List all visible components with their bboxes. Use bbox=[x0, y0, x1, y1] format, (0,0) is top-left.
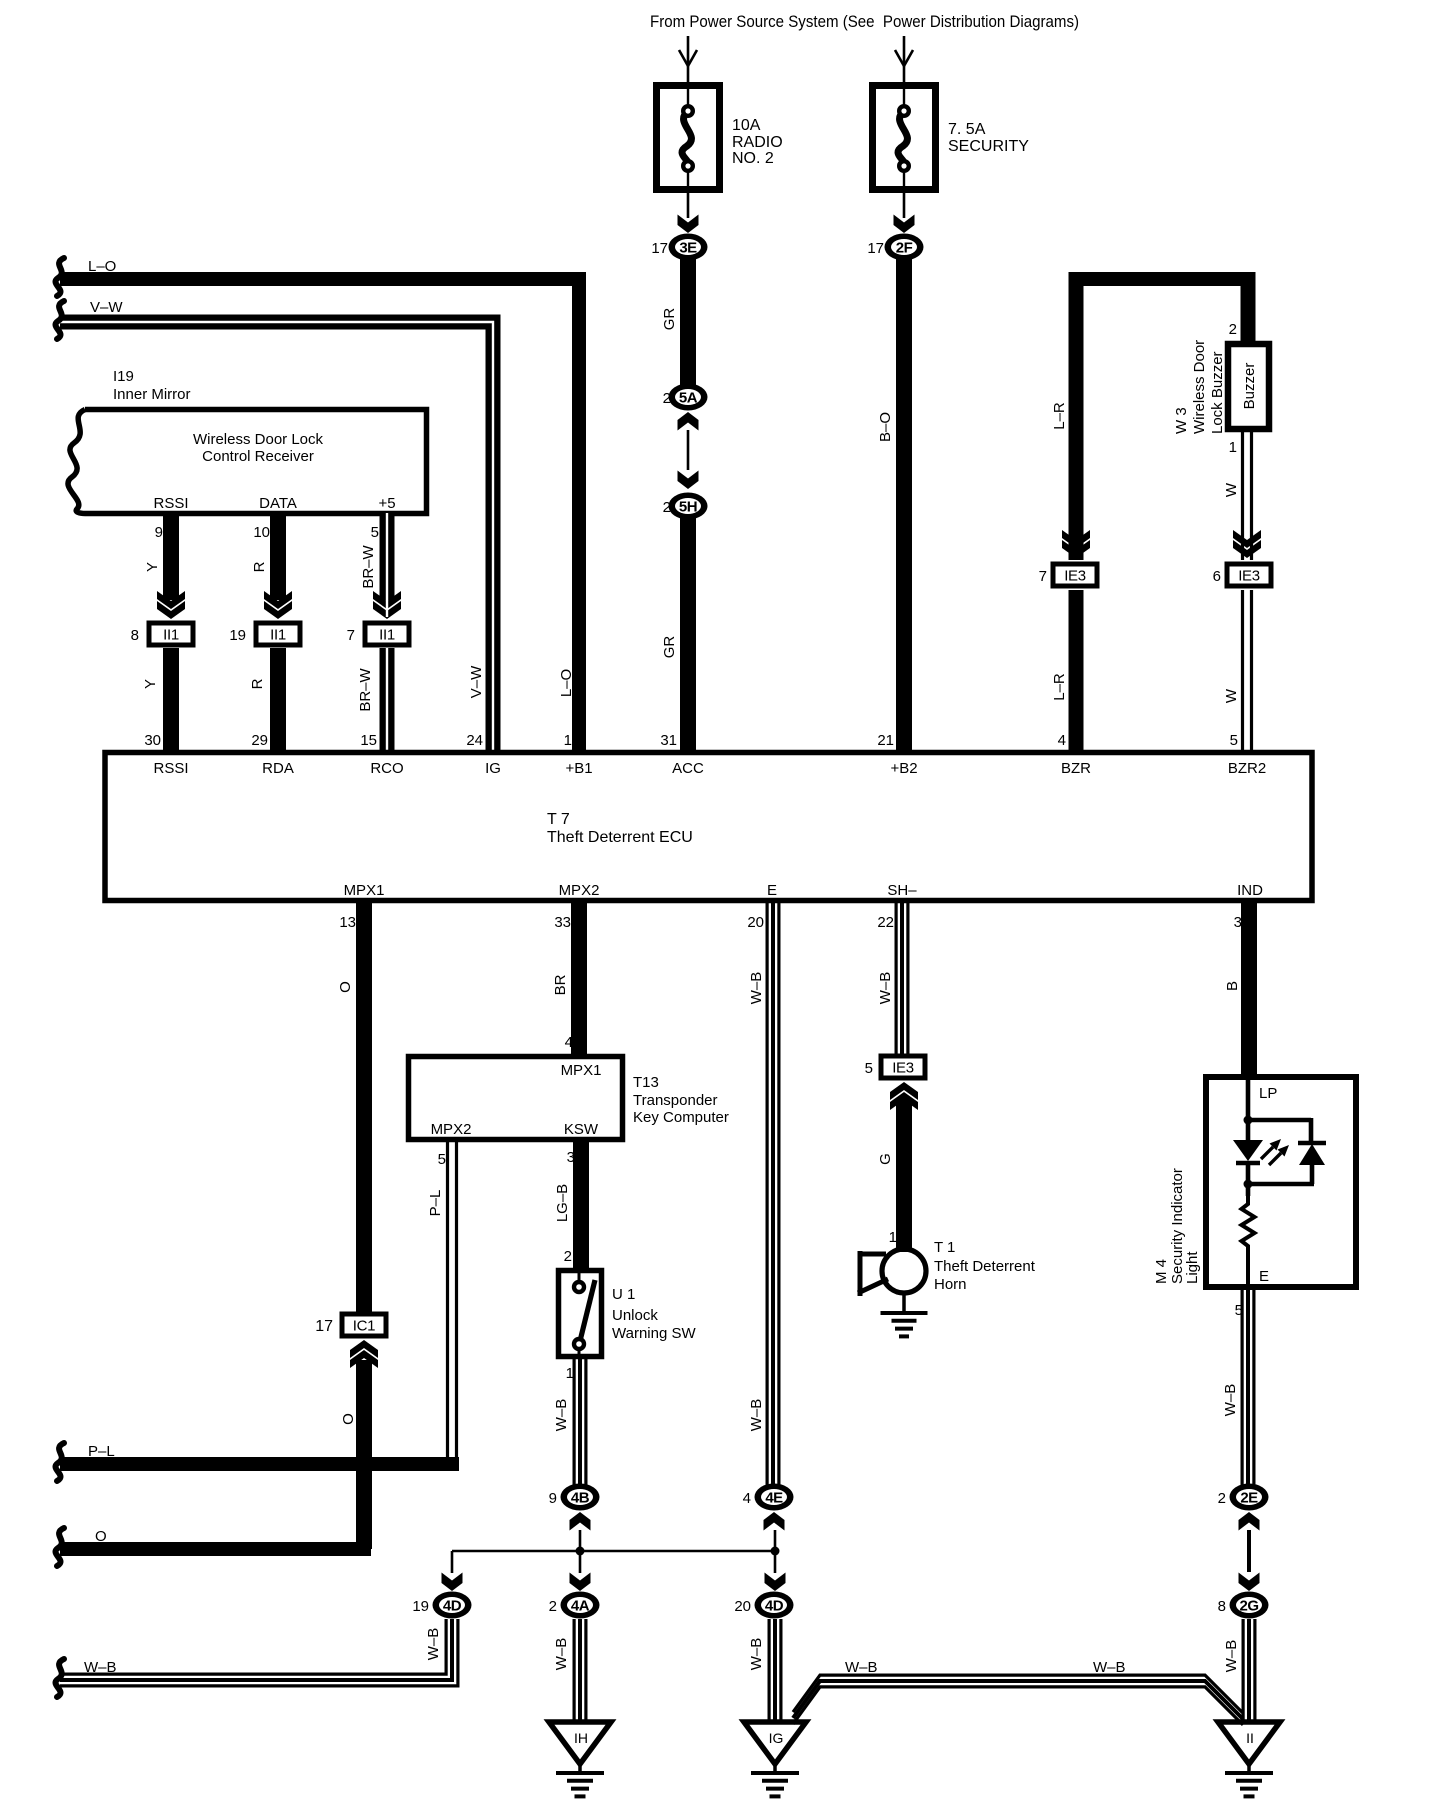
unlock warning switch U1 bbox=[559, 1271, 602, 1357]
connector 4D pin 20 bbox=[734, 1592, 793, 1619]
connector IE3 pin 5 bbox=[865, 1054, 928, 1081]
svg-text:31: 31 bbox=[660, 732, 677, 749]
label P-L left bbox=[88, 1443, 115, 1460]
svg-text:GR: GR bbox=[661, 308, 678, 331]
svg-text:4D: 4D bbox=[443, 1598, 462, 1615]
svg-text:Transponder: Transponder bbox=[633, 1092, 718, 1109]
label pin 29 bbox=[251, 732, 268, 749]
connector 2F pin 17 bbox=[867, 234, 923, 261]
connector 3E pin 17 bbox=[651, 234, 707, 261]
wire O IC1 down to harness bbox=[60, 1360, 371, 1549]
svg-text:E: E bbox=[1259, 1268, 1269, 1285]
wire W IE3 to ECU BZR2 bbox=[1243, 590, 1252, 752]
wire W-B 2G to ground II bbox=[1243, 1619, 1255, 1722]
wire L-R ECU BZR up and over to buzzer bbox=[1069, 272, 1255, 560]
wire W buzzer to IE3 pin 6 bbox=[1243, 429, 1252, 560]
label pin 31 bbox=[660, 732, 677, 749]
connector 4B pin 9 bbox=[549, 1484, 600, 1511]
fuse F1 10A RADIO NO. 2 bbox=[657, 85, 720, 190]
label W lower bbox=[1223, 688, 1240, 703]
connector 2G pin 8 bbox=[1218, 1592, 1269, 1619]
wire feed into fuse F2 bbox=[895, 36, 913, 84]
svg-text:4D: 4D bbox=[765, 1598, 784, 1615]
label fuse F1 value bbox=[732, 117, 783, 167]
label W-B bottom left bbox=[84, 1659, 117, 1676]
svg-text:Wireless Door Lock: Wireless Door Lock bbox=[193, 431, 324, 448]
svg-text:33: 33 bbox=[554, 914, 571, 931]
label pin 1 bbox=[564, 732, 572, 749]
connector 4A pin 2 bbox=[549, 1592, 600, 1619]
svg-text:GR: GR bbox=[661, 636, 678, 659]
label M4 pin 5 bbox=[1235, 1302, 1243, 1319]
svg-text:IG: IG bbox=[485, 760, 501, 777]
svg-text:Control Receiver: Control Receiver bbox=[202, 448, 314, 465]
svg-text:I19: I19 bbox=[113, 368, 134, 385]
wire L-R IE3 to ECU BZR bbox=[1069, 590, 1084, 752]
svg-text:19: 19 bbox=[412, 1598, 429, 1615]
label V-W left bbox=[90, 299, 123, 316]
wire W-B 4A to ground IH bbox=[574, 1619, 586, 1722]
svg-text:Warning SW: Warning SW bbox=[612, 1325, 696, 1342]
theft deterrent ECU T7 box bbox=[105, 753, 1312, 901]
svg-text:SH–: SH– bbox=[887, 882, 917, 899]
label P-L vertical bbox=[427, 1190, 444, 1217]
svg-text:Theft Deterrent: Theft Deterrent bbox=[934, 1258, 1036, 1275]
label pin 21 bbox=[877, 732, 894, 749]
label U1 pin 1 bbox=[566, 1365, 574, 1382]
svg-text:B–O: B–O bbox=[877, 412, 894, 442]
label W-B E lower bbox=[748, 1399, 765, 1432]
wire R II1 to ECU RDA bbox=[270, 648, 286, 752]
svg-text:RSSI: RSSI bbox=[153, 760, 188, 777]
label W-B 4A bbox=[553, 1638, 570, 1671]
arrow up into 4B bbox=[570, 1512, 591, 1531]
svg-text:17: 17 bbox=[315, 1318, 333, 1335]
label GR lower bbox=[661, 636, 678, 659]
junction rail bbox=[452, 1530, 780, 1573]
torn end O bbox=[55, 1528, 64, 1566]
svg-text:ACC: ACC bbox=[672, 760, 704, 777]
svg-text:W–B: W–B bbox=[1093, 1659, 1126, 1676]
svg-text:U 1: U 1 bbox=[612, 1286, 635, 1303]
svg-text:IH: IH bbox=[574, 1730, 588, 1746]
svg-text:W: W bbox=[1223, 482, 1240, 497]
wire P-L harness to T13 MPX2 bbox=[60, 1142, 459, 1464]
receiver pin labels bbox=[153, 495, 395, 512]
svg-text:4: 4 bbox=[565, 1034, 573, 1051]
label W-B mid bbox=[845, 1659, 878, 1676]
wire GR connector 3E to 5A bbox=[680, 259, 696, 385]
wire L-O from harness to ECU +B1 bbox=[60, 279, 586, 752]
svg-text:4B: 4B bbox=[571, 1490, 590, 1507]
svg-text:1: 1 bbox=[889, 1229, 897, 1246]
label T13 pin 5 bbox=[438, 1151, 446, 1168]
connector II1 pin 19 bbox=[229, 621, 302, 648]
label O left bbox=[95, 1528, 107, 1545]
svg-text:2: 2 bbox=[1229, 321, 1237, 338]
svg-text:Lock Buzzer: Lock Buzzer bbox=[1209, 351, 1226, 434]
label U1 pin 2 bbox=[564, 1248, 572, 1265]
wire fuse F1 to connector 3E bbox=[678, 189, 699, 233]
connector 4D pin 19 bbox=[412, 1592, 471, 1619]
label V-W vertical bbox=[468, 665, 485, 698]
svg-text:9: 9 bbox=[549, 1490, 557, 1507]
svg-text:10: 10 bbox=[253, 524, 270, 541]
svg-text:MPX2: MPX2 bbox=[559, 882, 600, 899]
svg-text:RCO: RCO bbox=[370, 760, 403, 777]
svg-text:2E: 2E bbox=[1240, 1490, 1258, 1507]
ground IG bbox=[744, 1722, 806, 1796]
svg-text:W–B: W–B bbox=[553, 1638, 570, 1671]
svg-text:O: O bbox=[95, 1528, 107, 1545]
svg-text:2: 2 bbox=[549, 1598, 557, 1615]
svg-text:L–R: L–R bbox=[1051, 402, 1068, 430]
wire feed into fuse F1 bbox=[679, 36, 697, 84]
svg-text:BR: BR bbox=[552, 974, 569, 995]
torn end P-L bbox=[55, 1443, 64, 1481]
svg-text:BZR: BZR bbox=[1061, 760, 1091, 777]
svg-text:LG–B: LG–B bbox=[554, 1184, 571, 1222]
connector IE3 pin 6 bbox=[1213, 562, 1274, 589]
svg-text:15: 15 bbox=[360, 732, 377, 749]
svg-text:SECURITY: SECURITY bbox=[948, 138, 1029, 155]
label O upper bbox=[337, 981, 354, 993]
svg-text:1: 1 bbox=[1229, 439, 1237, 456]
arrow up into 2E bbox=[1239, 1512, 1260, 1531]
svg-text:R: R bbox=[249, 678, 266, 689]
svg-text:2F: 2F bbox=[896, 240, 913, 257]
svg-text:G: G bbox=[877, 1153, 894, 1165]
M4 internal LED circuit bbox=[1233, 1080, 1326, 1196]
wire R receiver DATA to II1 bbox=[264, 513, 292, 619]
label B bbox=[1224, 981, 1241, 991]
torn end V-W bbox=[55, 301, 64, 339]
label L-O left bbox=[88, 258, 116, 275]
svg-text:O: O bbox=[340, 1413, 357, 1425]
svg-text:4: 4 bbox=[1058, 732, 1066, 749]
svg-text:30: 30 bbox=[144, 732, 161, 749]
svg-text:Y: Y bbox=[144, 562, 161, 572]
connector 4E pin 4 bbox=[743, 1484, 794, 1511]
label W-B SH bbox=[877, 972, 894, 1005]
svg-text:W–B: W–B bbox=[748, 972, 765, 1005]
theft deterrent horn T1 bbox=[858, 1249, 928, 1336]
svg-text:17: 17 bbox=[867, 240, 884, 257]
wire W-B IG to ground II bbox=[793, 1675, 1243, 1725]
svg-text:7: 7 bbox=[1039, 568, 1047, 585]
wire BR-W receiver +5 to II1 bbox=[373, 513, 401, 619]
label LP bbox=[1259, 1085, 1277, 1102]
svg-text:O: O bbox=[337, 981, 354, 993]
label T1 title bbox=[934, 1239, 1036, 1293]
svg-text:4E: 4E bbox=[765, 1490, 783, 1507]
svg-text:2: 2 bbox=[1218, 1490, 1226, 1507]
label W-B below U1 bbox=[553, 1399, 570, 1432]
svg-text:17: 17 bbox=[651, 240, 668, 257]
connector II1 pin 8 bbox=[131, 621, 196, 648]
label pin 4 T13 bbox=[565, 1034, 573, 1051]
label E M4 bbox=[1259, 1268, 1269, 1285]
label W-B E upper bbox=[748, 972, 765, 1005]
label R upper bbox=[251, 561, 268, 572]
arrow up into 4E bbox=[764, 1512, 785, 1531]
label W-B right bbox=[1093, 1659, 1126, 1676]
svg-text:5: 5 bbox=[865, 1060, 873, 1077]
wire BR ECU MPX2 to T13 MPX1 bbox=[571, 901, 587, 1056]
ground II bbox=[1218, 1722, 1280, 1796]
wire fuse F2 to connector 2F bbox=[894, 189, 915, 233]
label G bbox=[877, 1153, 894, 1165]
wire GR connector 5H to ECU ACC bbox=[680, 518, 696, 752]
connector 2E pin 2 bbox=[1218, 1484, 1269, 1511]
svg-text:R: R bbox=[251, 561, 268, 572]
svg-text:Wireless Door: Wireless Door bbox=[1191, 340, 1208, 434]
svg-text:+5: +5 bbox=[378, 495, 395, 512]
label U1 title bbox=[612, 1286, 696, 1342]
svg-text:BR–W: BR–W bbox=[360, 544, 377, 588]
wire W-B ECU E to connector 4E bbox=[767, 901, 779, 1485]
wire B-O connector 2F to ECU +B2 bbox=[896, 259, 912, 752]
svg-text:W–B: W–B bbox=[553, 1399, 570, 1432]
wire 5A to 5H with arrows bbox=[678, 412, 699, 489]
svg-text:BR–W: BR–W bbox=[357, 667, 374, 711]
svg-text:20: 20 bbox=[747, 914, 764, 931]
svg-text:+B2: +B2 bbox=[890, 760, 917, 777]
ECU bottom pin names bbox=[344, 882, 1264, 899]
svg-text:IC1: IC1 bbox=[353, 1318, 375, 1335]
wire B ECU IND to M4 bbox=[1241, 901, 1257, 1076]
svg-text:DATA: DATA bbox=[259, 495, 297, 512]
svg-text:W: W bbox=[1223, 688, 1240, 703]
connector II1 pin 7 bbox=[347, 621, 412, 648]
connector 5H pin 2 bbox=[663, 493, 708, 520]
svg-text:MPX1: MPX1 bbox=[561, 1062, 602, 1079]
label W-B 2G bbox=[1223, 1640, 1240, 1673]
torn end L-O bbox=[55, 258, 64, 296]
label BR-W lower bbox=[357, 667, 374, 711]
svg-text:+B1: +B1 bbox=[565, 760, 592, 777]
svg-text:From Power Source System (See: From Power Source System (See Power Dist… bbox=[650, 12, 1079, 31]
connector 5A pin 2 bbox=[663, 384, 708, 411]
svg-text:Key Computer: Key Computer bbox=[633, 1109, 729, 1126]
svg-text:W–B: W–B bbox=[877, 972, 894, 1005]
svg-text:2: 2 bbox=[564, 1248, 572, 1265]
svg-text:5: 5 bbox=[371, 524, 379, 541]
label L-R lower bbox=[1051, 673, 1068, 701]
label O mid bbox=[340, 1413, 357, 1425]
wire W-B U1 to connector 4B bbox=[574, 1356, 586, 1485]
svg-text:P–L: P–L bbox=[88, 1443, 115, 1460]
svg-text:1: 1 bbox=[564, 732, 572, 749]
svg-text:E: E bbox=[767, 882, 777, 899]
label horn pin 1 bbox=[889, 1229, 897, 1246]
svg-text:L–R: L–R bbox=[1051, 673, 1068, 701]
label BR-W upper bbox=[360, 544, 377, 588]
label pin 24 bbox=[466, 732, 483, 749]
svg-text:NO. 2: NO. 2 bbox=[732, 150, 774, 167]
connector IE3 pin 7 bbox=[1039, 562, 1100, 589]
label L-O vertical bbox=[558, 669, 575, 697]
svg-text:4A: 4A bbox=[571, 1598, 590, 1615]
label W-B 4D20 bbox=[748, 1638, 765, 1671]
svg-text:V–W: V–W bbox=[90, 299, 123, 316]
svg-text:20: 20 bbox=[734, 1598, 751, 1615]
svg-text:22: 22 bbox=[877, 914, 894, 931]
label pin 30 bbox=[144, 732, 161, 749]
label W3 wireless door lock buzzer bbox=[1173, 340, 1226, 434]
svg-text:7. 5A: 7. 5A bbox=[948, 121, 986, 138]
label R lower bbox=[249, 678, 266, 689]
wire LG-B T13 KSW to U1 bbox=[573, 1139, 589, 1270]
label pin 4 bbox=[1058, 732, 1066, 749]
svg-text:Light: Light bbox=[1184, 1251, 1201, 1284]
arrow into IE3 pin 6 bbox=[1233, 530, 1261, 558]
svg-text:T 7: T 7 bbox=[547, 811, 570, 828]
svg-text:24: 24 bbox=[466, 732, 483, 749]
svg-text:Horn: Horn bbox=[934, 1276, 967, 1293]
connector IC1 pin 17 bbox=[315, 1312, 388, 1339]
svg-text:M 4: M 4 bbox=[1153, 1259, 1170, 1284]
note: from power source system bbox=[650, 12, 1079, 31]
arrow down into 4D pin20 bbox=[765, 1573, 786, 1592]
svg-text:RSSI: RSSI bbox=[153, 495, 188, 512]
wire W-B harness to 4D pin19 bbox=[60, 1619, 458, 1686]
svg-text:Inner Mirror: Inner Mirror bbox=[113, 386, 191, 403]
wire 2E to 2G bbox=[1239, 1530, 1260, 1591]
wire BR-W II1 to ECU RCO bbox=[380, 648, 395, 752]
label W-B M4 bbox=[1222, 1384, 1239, 1417]
svg-text:L–O: L–O bbox=[88, 258, 116, 275]
wire Y II1 to ECU RSSI bbox=[163, 648, 179, 752]
svg-text:IND: IND bbox=[1237, 882, 1263, 899]
svg-text:T 1: T 1 bbox=[934, 1239, 955, 1256]
wire G IE3 to horn bbox=[896, 1100, 912, 1252]
svg-text:W–B: W–B bbox=[84, 1659, 117, 1676]
svg-text:IG: IG bbox=[769, 1730, 784, 1746]
label LG-B bbox=[554, 1184, 571, 1222]
ECU top pin names bbox=[153, 760, 1266, 777]
label pin 5 BZR2 bbox=[1230, 732, 1238, 749]
label fuse F2 value bbox=[948, 121, 1029, 155]
svg-text:5A: 5A bbox=[679, 390, 698, 407]
svg-text:RADIO: RADIO bbox=[732, 134, 783, 151]
wireless door lock control receiver box bbox=[68, 410, 426, 514]
security indicator light M4 box bbox=[1206, 1077, 1356, 1287]
svg-text:V–W: V–W bbox=[468, 665, 485, 698]
wire O ECU MPX1 down bbox=[356, 901, 372, 1314]
svg-text:Unlock: Unlock bbox=[612, 1307, 658, 1324]
wire V-W from harness to ECU IG bbox=[60, 322, 493, 752]
svg-text:Buzzer: Buzzer bbox=[1241, 363, 1258, 410]
label T13 title bbox=[633, 1074, 729, 1126]
arrow into IE3 pin 7 bbox=[1062, 530, 1090, 558]
wire W-B 4D to ground IG bbox=[769, 1619, 781, 1722]
svg-text:6: 6 bbox=[1213, 568, 1221, 585]
label buzzer pin 2 bbox=[1229, 321, 1237, 338]
label W-B 4D vertical bbox=[425, 1628, 442, 1661]
svg-text:W–B: W–B bbox=[1223, 1640, 1240, 1673]
svg-text:19: 19 bbox=[229, 627, 246, 644]
fuse F2 7.5A SECURITY bbox=[873, 85, 936, 190]
svg-text:II: II bbox=[1246, 1730, 1254, 1746]
transponder key computer T13 box bbox=[409, 1057, 623, 1140]
wire W-B M4 to connector 2E bbox=[1242, 1287, 1254, 1485]
svg-text:II1: II1 bbox=[163, 627, 179, 644]
label L-R upper bbox=[1051, 402, 1068, 430]
torn end W-B bbox=[55, 1659, 64, 1697]
svg-text:II1: II1 bbox=[379, 627, 395, 644]
label buzzer pin 1 bbox=[1229, 439, 1237, 456]
svg-text:Theft Deterrent ECU: Theft Deterrent ECU bbox=[547, 829, 693, 846]
svg-text:2G: 2G bbox=[1239, 1598, 1258, 1615]
svg-text:3E: 3E bbox=[679, 240, 697, 257]
arrow up into IC1 bbox=[350, 1340, 378, 1368]
svg-text:B: B bbox=[1224, 981, 1241, 991]
svg-text:W 3: W 3 bbox=[1173, 407, 1190, 434]
svg-text:4: 4 bbox=[743, 1490, 751, 1507]
label GR upper bbox=[661, 308, 678, 331]
ground IH bbox=[549, 1722, 611, 1796]
receiver pin numbers bbox=[155, 524, 379, 541]
ECU bottom pin numbers bbox=[339, 914, 1242, 931]
svg-text:9: 9 bbox=[155, 524, 163, 541]
svg-text:3: 3 bbox=[1234, 914, 1242, 931]
svg-text:5: 5 bbox=[438, 1151, 446, 1168]
buzzer W3 box bbox=[1228, 344, 1269, 429]
label M4 title bbox=[1153, 1168, 1201, 1284]
svg-text:IE3: IE3 bbox=[892, 1060, 914, 1077]
svg-text:MPX2: MPX2 bbox=[431, 1121, 472, 1138]
svg-text:L–O: L–O bbox=[558, 669, 575, 697]
svg-text:T13: T13 bbox=[633, 1074, 659, 1091]
svg-text:BZR2: BZR2 bbox=[1228, 760, 1266, 777]
svg-text:21: 21 bbox=[877, 732, 894, 749]
svg-text:29: 29 bbox=[251, 732, 268, 749]
svg-text:W–B: W–B bbox=[425, 1628, 442, 1661]
svg-text:IE3: IE3 bbox=[1064, 568, 1086, 585]
M4 resistor bbox=[1242, 1196, 1255, 1284]
svg-text:7: 7 bbox=[347, 627, 355, 644]
wire Y receiver RSSI to II1 bbox=[157, 513, 185, 619]
label T13 pin 3 bbox=[567, 1149, 575, 1166]
label BR bbox=[552, 974, 569, 995]
svg-text:KSW: KSW bbox=[564, 1121, 599, 1138]
svg-text:13: 13 bbox=[339, 914, 356, 931]
svg-text:8: 8 bbox=[131, 627, 139, 644]
wire W-B ECU SH to IE3 pin 5 bbox=[896, 901, 908, 1056]
svg-text:P–L: P–L bbox=[427, 1190, 444, 1217]
arrow down into 4D pin19 bbox=[442, 1573, 463, 1592]
svg-text:5: 5 bbox=[1230, 732, 1238, 749]
svg-text:8: 8 bbox=[1218, 1598, 1226, 1615]
svg-text:IE3: IE3 bbox=[1238, 568, 1260, 585]
svg-text:W–B: W–B bbox=[748, 1638, 765, 1671]
label Y lower bbox=[142, 679, 159, 689]
svg-text:MPX1: MPX1 bbox=[344, 882, 385, 899]
label pin 15 bbox=[360, 732, 377, 749]
svg-text:10A: 10A bbox=[732, 117, 761, 134]
svg-text:Y: Y bbox=[142, 679, 159, 689]
label I19 Inner Mirror bbox=[113, 368, 191, 403]
svg-text:5H: 5H bbox=[679, 499, 697, 516]
svg-text:RDA: RDA bbox=[262, 760, 294, 777]
arrow down into 4A bbox=[570, 1573, 591, 1592]
label Y upper bbox=[144, 562, 161, 572]
svg-text:II1: II1 bbox=[270, 627, 286, 644]
svg-text:W–B: W–B bbox=[845, 1659, 878, 1676]
svg-text:W–B: W–B bbox=[1222, 1384, 1239, 1417]
svg-text:W–B: W–B bbox=[748, 1399, 765, 1432]
